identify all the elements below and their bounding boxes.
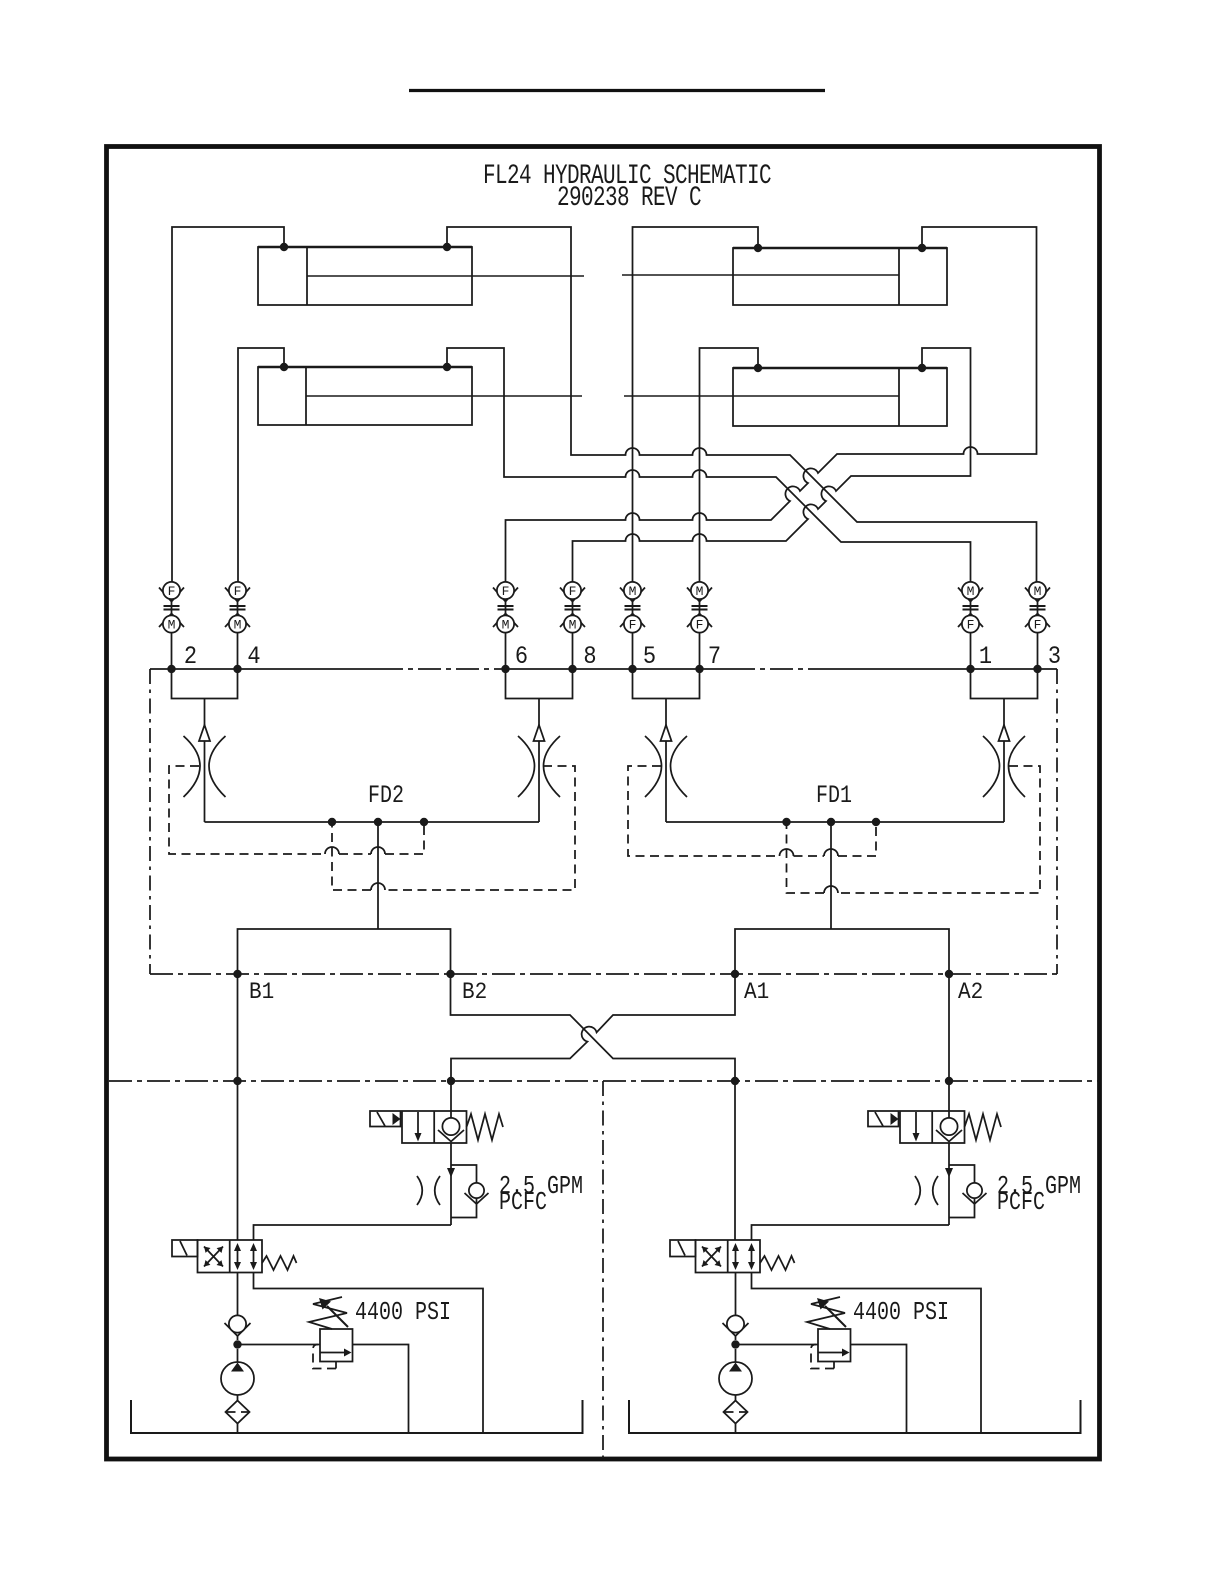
FD2 outlet drop to manifold B: [377, 822, 379, 929]
label 2.5 GPM PCFC: [499, 1172, 583, 1201]
title text 290238 REV C: [557, 184, 701, 214]
port dot CYL4 rod end: [754, 364, 762, 372]
junction dot port 6 on manifold bus: [501, 665, 509, 673]
power unit boundary bus (dash-dot): [109, 1080, 1098, 1082]
hydraulic cylinder CYL1 (top left): [258, 247, 584, 305]
supply check valve CV1: [225, 1273, 251, 1341]
label FD2: [368, 781, 404, 810]
wire to relief valve RV1: [238, 1344, 321, 1346]
PCFC1 bypass check valve: [451, 1165, 489, 1218]
wire from SV1 down to flow control: [450, 1143, 452, 1225]
FD1 pilot line left (dashed): [628, 766, 780, 856]
wire from SV2 down to flow control: [948, 1143, 950, 1225]
svg-text:FD1: FD1: [816, 781, 852, 810]
port dot CYL1 cap end: [280, 243, 288, 251]
quick-disconnect coupling port 2 (F/M): [159, 582, 184, 669]
svg-text:M: M: [696, 584, 704, 599]
svg-text:F: F: [696, 617, 704, 632]
DV2 tank drain wire: [752, 1273, 982, 1434]
manifold block A outline: [735, 929, 949, 974]
svg-text:1: 1: [979, 644, 992, 671]
junction dot port 3 on manifold bus: [1033, 665, 1041, 673]
top rule line: [409, 89, 825, 92]
label B1: [249, 978, 274, 1005]
FD2 right variable-orifice venturi with flow arrow: [518, 699, 560, 823]
flow arrow on PCFC2 line: [945, 1168, 953, 1178]
FD2 combining gallery line: [205, 821, 540, 823]
junction dot left SV feed at power unit boundary: [447, 1077, 455, 1085]
svg-text:4: 4: [247, 644, 260, 671]
quick-disconnect coupling port 4 (F/M): [225, 582, 250, 669]
relief valve RV2: [807, 1297, 851, 1369]
svg-text:2: 2: [184, 644, 197, 671]
svg-text:F: F: [629, 617, 637, 632]
wire CYL2 rod end through crossover to port 1: [447, 348, 971, 582]
directional control valve DV1 (4-way solenoid): [172, 1240, 297, 1273]
FD2 left variable-orifice venturi with flow arrow: [184, 699, 226, 823]
junction dot A2 at power unit boundary: [945, 1077, 953, 1085]
suction strainer F2: [724, 1395, 748, 1433]
svg-text:PCFC: PCFC: [499, 1188, 547, 1217]
quick-disconnect coupling port 7 (M/F): [687, 582, 712, 669]
port number label 6: [515, 644, 528, 671]
wire B1 to directional valve DV1: [237, 974, 239, 1240]
svg-text:FD2: FD2: [368, 781, 404, 810]
junction dot pump outlet 1: [233, 1340, 241, 1348]
junction dot B2: [446, 970, 454, 978]
directional control valve DV2 (4-way solenoid): [670, 1240, 795, 1273]
junction dot A2: [945, 970, 953, 978]
FD1 left variable-orifice venturi with flow arrow: [645, 699, 687, 823]
wire to relief valve RV2: [736, 1344, 819, 1346]
svg-text:7: 7: [708, 644, 721, 671]
svg-text:8: 8: [583, 644, 596, 671]
label 4400 PSI: [853, 1298, 949, 1327]
svg-text:M: M: [629, 584, 637, 599]
port number label 4: [247, 644, 260, 671]
FD2 junction dot right pilot tap: [420, 818, 428, 826]
power unit divider (dash-dot): [602, 1081, 604, 1458]
FD1 junction dot outlet: [827, 818, 835, 826]
manifold box ports 6-8: [506, 669, 573, 699]
solenoid unloading valve SV2 (2-position cartridge): [868, 1111, 1001, 1143]
manifold block B outline: [238, 929, 451, 974]
svg-text:5: 5: [643, 644, 656, 671]
svg-text:6: 6: [515, 644, 528, 671]
label B2: [462, 978, 487, 1005]
port number label 7: [708, 644, 721, 671]
svg-text:F: F: [502, 584, 510, 599]
wire CYL1 rod end through crossover to port 3: [447, 227, 1037, 582]
FD1 outlet drop to manifold A: [830, 822, 832, 929]
assembly boundary left (dash-dot): [149, 669, 151, 974]
svg-text:B1: B1: [249, 978, 274, 1005]
svg-text:M: M: [569, 617, 577, 632]
flow arrow on PCFC1 line: [447, 1168, 455, 1178]
junction dot pump outlet 2: [731, 1340, 739, 1348]
port dot CYL4 cap end: [918, 364, 926, 372]
hydraulic cylinder CYL3 (top right): [622, 248, 947, 305]
junction dot port 1 on manifold bus: [966, 665, 974, 673]
assembly boundary right (dash-dot): [1056, 669, 1058, 974]
manifold box ports 1-3: [971, 669, 1038, 699]
solenoid unloading valve SV1 (2-position cartridge): [370, 1111, 503, 1143]
quick-disconnect coupling port 1 (M/F): [958, 582, 983, 669]
svg-text:M: M: [967, 584, 975, 599]
port dot CYL2 cap end: [280, 363, 288, 371]
PCFC2 orifice: [915, 1176, 938, 1205]
port number label 1: [979, 644, 992, 671]
FD1 right variable-orifice venturi with flow arrow: [983, 699, 1025, 823]
port dot CYL3 rod end: [754, 244, 762, 252]
wire CYL1 cap end to port 2: [172, 227, 284, 582]
FD1 pilot line right (dashed): [838, 766, 1040, 893]
FD2 pilot line left (dashed): [169, 766, 325, 854]
relief outlet wire to tank: [851, 1345, 907, 1434]
junction dot right DV feed at power unit boundary: [731, 1077, 739, 1085]
junction dot B1: [233, 970, 241, 978]
manifold box ports 2-4: [172, 669, 238, 699]
drawing border frame: [107, 147, 1100, 1460]
pump P2: [719, 1349, 752, 1395]
quick-disconnect coupling port 5 (M/F): [620, 582, 645, 669]
svg-text:M: M: [1034, 584, 1042, 599]
port dot CYL3 cap end: [918, 244, 926, 252]
junction dot port 7 on manifold bus: [695, 665, 703, 673]
quick-disconnect coupling port 8 (F/M): [560, 582, 585, 669]
label A1: [744, 978, 769, 1005]
junction dot port 2 on manifold bus: [167, 665, 175, 673]
PCFC2 bypass check valve: [949, 1165, 987, 1218]
title text FL24 HYDRAULIC SCHEMATIC: [483, 162, 771, 192]
port dot CYL1 rod end: [443, 243, 451, 251]
wire PCFC2 outlet to directional valve: [752, 1225, 950, 1240]
wire CYL3 cap end to port 5: [633, 227, 759, 582]
DV1 tank drain wire: [254, 1273, 484, 1434]
junction dot port 5 on manifold bus: [628, 665, 636, 673]
svg-text:F: F: [168, 584, 176, 599]
svg-text:M: M: [234, 617, 242, 632]
svg-text:4400 PSI: 4400 PSI: [853, 1298, 949, 1327]
svg-text:B2: B2: [462, 978, 487, 1005]
svg-text:F: F: [234, 584, 242, 599]
svg-text:M: M: [502, 617, 510, 632]
pump P1: [221, 1349, 254, 1395]
FD2 pilot line right (dashed): [385, 766, 575, 890]
svg-text:F: F: [1034, 617, 1042, 632]
port number label 8: [583, 644, 596, 671]
label FD1: [816, 781, 852, 810]
junction dot port 8 on manifold bus: [568, 665, 576, 673]
junction dot A1: [731, 970, 739, 978]
label A2: [958, 978, 983, 1005]
port number label 2: [184, 644, 197, 671]
FD2 junction dot left pilot tap: [328, 818, 336, 826]
FD1 combining gallery line: [666, 821, 1004, 823]
port number label 5: [643, 644, 656, 671]
manifold box ports 5-7: [633, 669, 700, 699]
svg-text:4400 PSI: 4400 PSI: [355, 1298, 451, 1327]
quick-disconnect coupling port 3 (M/F): [1025, 582, 1050, 669]
svg-text:A2: A2: [958, 978, 983, 1005]
FD1 junction dot right pilot tap: [872, 818, 880, 826]
crossover wire A1 to left power unit: [451, 974, 735, 1111]
wire CYL3 rod end through crossover to port 6: [506, 227, 1037, 582]
crossover wire B2 to right power unit: [451, 974, 736, 1240]
wire PCFC1 outlet to directional valve: [254, 1225, 452, 1240]
label 2.5 GPM PCFC: [997, 1172, 1081, 1201]
reservoir tank T2: [629, 1400, 1081, 1433]
suction strainer F1: [226, 1395, 250, 1433]
supply check valve CV2: [723, 1273, 749, 1341]
port number label 3: [1048, 644, 1061, 671]
svg-text:M: M: [168, 617, 176, 632]
wire A2 to solenoid valve SV2: [948, 974, 950, 1111]
PCFC1 orifice: [417, 1176, 440, 1205]
workport bus (dash-dot) B1 B2 A1 A2: [150, 973, 1057, 975]
port dot CYL2 rod end: [443, 363, 451, 371]
wire CYL4 cap end to port 7: [700, 348, 759, 582]
label 4400 PSI: [355, 1298, 451, 1327]
svg-text:290238 REV C: 290238 REV C: [557, 184, 701, 214]
svg-text:3: 3: [1048, 644, 1061, 671]
svg-text:F: F: [967, 617, 975, 632]
FD1 junction dot left pilot tap: [782, 818, 790, 826]
quick-disconnect coupling port 6 (F/M): [493, 582, 518, 669]
hydraulic cylinder CYL4 (second row right): [624, 368, 947, 426]
junction dot port 4 on manifold bus: [233, 665, 241, 673]
wire CYL2 cap end to port 4: [238, 348, 284, 582]
FD2 junction dot outlet: [374, 818, 382, 826]
manifold bus line with ports: [150, 668, 380, 670]
svg-text:F: F: [569, 584, 577, 599]
wire CYL4 rod end through crossover to port 8: [573, 348, 971, 582]
svg-text:PCFC: PCFC: [997, 1188, 1045, 1217]
hydraulic cylinder CYL2 (second row left): [258, 367, 582, 425]
relief valve RV1: [309, 1297, 353, 1369]
reservoir tank T1: [131, 1400, 583, 1433]
junction dot B1 at power unit boundary: [233, 1077, 241, 1085]
svg-text:A1: A1: [744, 978, 769, 1005]
relief outlet wire to tank: [353, 1345, 409, 1434]
